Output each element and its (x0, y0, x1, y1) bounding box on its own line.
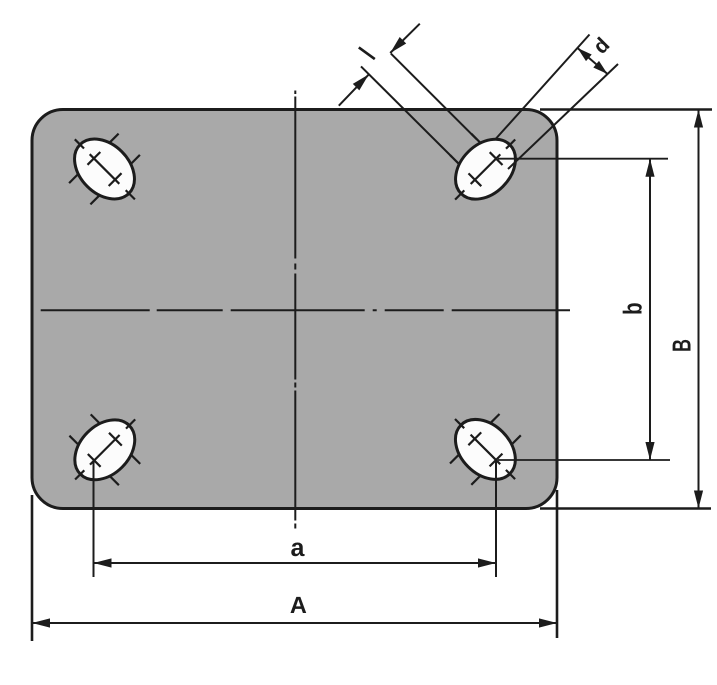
wire d dimension line (578, 48, 608, 74)
wire slot-length extension line through inner arc center (361, 66, 452, 157)
wire bottom edge extension (B extension line, bottom) (540, 507, 711, 510)
node b arrowhead bottom (645, 442, 654, 460)
wire a extension line right (from bottom-right slot) (495, 460, 497, 577)
node b arrowhead top (645, 159, 654, 177)
wire d extension line (upper-left side of slot) (492, 35, 590, 144)
svg-text:B: B (667, 339, 697, 352)
wire left edge extension (A extension line, left) (31, 495, 34, 641)
wire b extension line bottom (from bottom-right slot) (498, 459, 670, 461)
label l (slot length dimension stub) (359, 47, 375, 59)
node d arrowhead lower-right (593, 61, 607, 74)
hole bottom-right slot (444, 408, 527, 491)
node A arrowhead left (32, 618, 50, 627)
hole bottom-left slot (63, 408, 146, 491)
node slot-length upper arrowhead (390, 37, 406, 53)
wire a extension line left (from bottom-left slot) (93, 461, 95, 577)
svg-text:a: a (291, 534, 306, 562)
node bottom-left slot center marks (75, 470, 84, 479)
wire A dimension line (32, 622, 557, 624)
wire a dimension line (94, 562, 497, 564)
node d arrowhead upper-left (578, 48, 592, 61)
wire slot-length upper arrow leader (390, 24, 420, 53)
node horizontal centerline (41, 309, 570, 311)
node A arrowhead right (539, 618, 557, 627)
node top-left slot center marks (75, 139, 84, 148)
wire right edge extension (A extension line, right) (556, 490, 559, 638)
wire B dimension line (698, 110, 700, 509)
node a arrowhead right (478, 558, 496, 567)
wire d extension line (lower-right side of slot) (508, 64, 618, 169)
node top-right slot center marks (506, 140, 515, 149)
node B arrowhead top (694, 110, 703, 128)
wire b extension line top (from top-right slot) (498, 158, 668, 160)
svg-text:A: A (290, 592, 307, 618)
node slot-length lower arrowhead (353, 74, 369, 90)
node vertical centerline (294, 91, 296, 529)
node bottom-right slot center marks (506, 470, 515, 479)
wire slot-length lower arrow leader (339, 74, 369, 105)
hole top-left slot (63, 127, 146, 210)
svg-text:b: b (618, 302, 648, 315)
node B arrowhead bottom (694, 491, 703, 509)
hole top-right slot (444, 127, 527, 210)
plate (gray mounting plate, rounded corners) (32, 110, 557, 509)
wire b dimension line (649, 159, 651, 460)
node a arrowhead left (94, 558, 112, 567)
wire slot-length extension line through outer arc center (391, 54, 477, 140)
wire top edge extension (B extension line, top) (540, 108, 712, 111)
